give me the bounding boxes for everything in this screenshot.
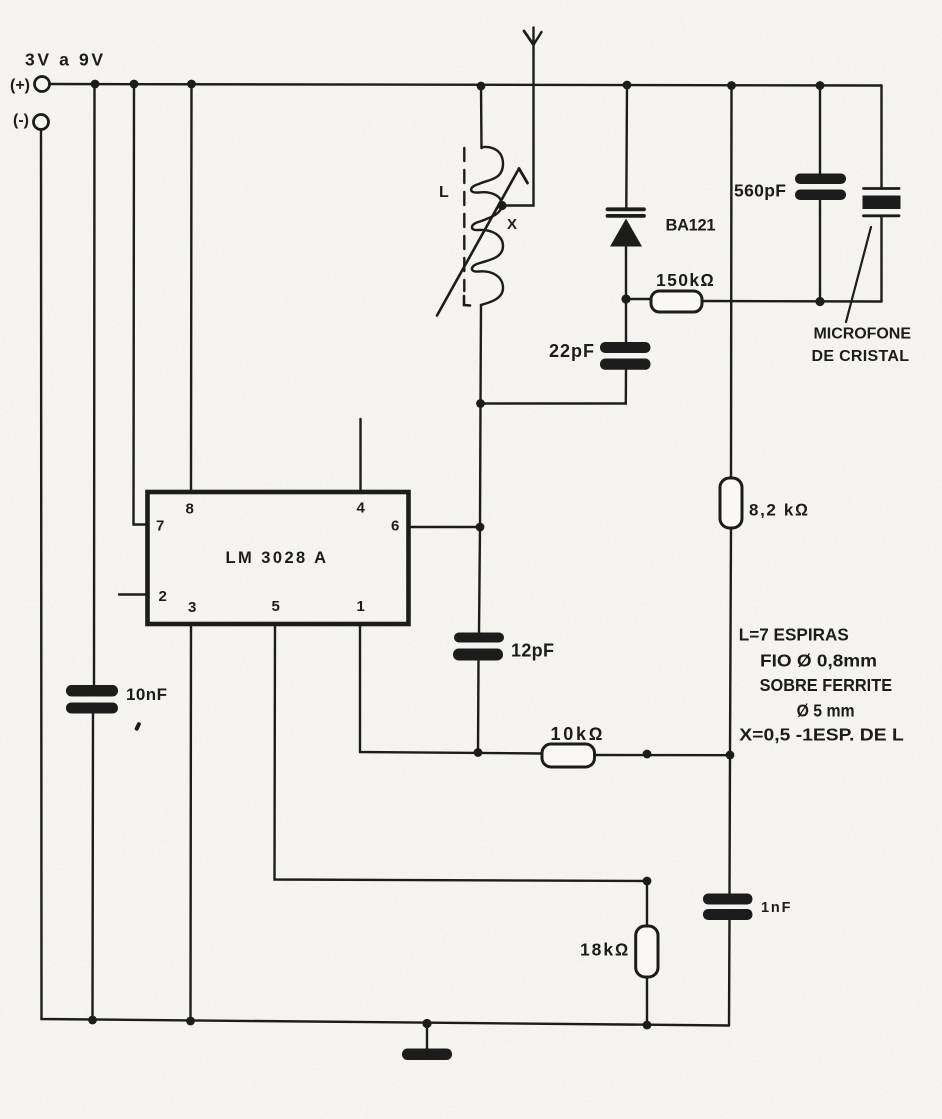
svg-text:1: 1 bbox=[357, 598, 365, 615]
svg-text:3: 3 bbox=[188, 599, 196, 616]
svg-text:L: L bbox=[439, 184, 449, 201]
svg-text:8: 8 bbox=[186, 501, 194, 518]
svg-text:X=0,5 -1ESP. DE L: X=0,5 -1ESP. DE L bbox=[739, 725, 904, 745]
svg-text:L=7 ESPIRAS: L=7 ESPIRAS bbox=[739, 625, 849, 645]
svg-text:LM 3028 A: LM 3028 A bbox=[226, 549, 327, 567]
svg-text:2: 2 bbox=[159, 588, 167, 605]
svg-text:MICROFONE: MICROFONE bbox=[814, 326, 912, 343]
svg-text:FIO Ø 0,8mm: FIO Ø 0,8mm bbox=[760, 651, 877, 671]
svg-text:12pF: 12pF bbox=[511, 641, 554, 661]
svg-text:6: 6 bbox=[391, 518, 399, 535]
svg-text:560pF: 560pF bbox=[734, 181, 786, 201]
svg-text:7: 7 bbox=[156, 518, 164, 535]
svg-text:22pF: 22pF bbox=[549, 341, 594, 361]
svg-text:5: 5 bbox=[272, 598, 280, 615]
svg-text:X: X bbox=[507, 216, 517, 233]
svg-text:3V a 9V: 3V a 9V bbox=[25, 50, 103, 70]
svg-text:(-): (-) bbox=[13, 112, 29, 129]
svg-text:4: 4 bbox=[357, 500, 366, 517]
svg-text:10nF: 10nF bbox=[126, 685, 167, 704]
svg-text:(+): (+) bbox=[10, 77, 30, 94]
svg-text:1nF: 1nF bbox=[761, 900, 791, 916]
svg-text:18kΩ: 18kΩ bbox=[580, 940, 629, 960]
svg-text:150kΩ: 150kΩ bbox=[656, 270, 714, 290]
svg-text:10kΩ: 10kΩ bbox=[551, 724, 603, 744]
svg-text:Ø 5 mm: Ø 5 mm bbox=[797, 701, 855, 721]
svg-text:BA121: BA121 bbox=[666, 217, 716, 235]
svg-text:SOBRE FERRITE: SOBRE FERRITE bbox=[760, 675, 893, 695]
svg-text:DE CRISTAL: DE CRISTAL bbox=[812, 348, 910, 365]
svg-text:8,2 kΩ: 8,2 kΩ bbox=[749, 501, 808, 520]
